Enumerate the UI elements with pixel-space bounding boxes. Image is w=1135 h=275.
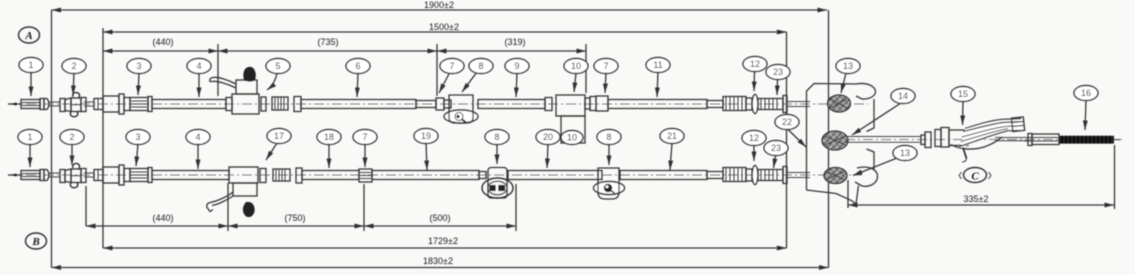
dimension 335±2 xyxy=(848,194,1114,205)
svg-text:18: 18 xyxy=(324,132,334,142)
label A xyxy=(19,27,40,43)
cable B step xyxy=(479,172,486,179)
extension x=516 xyxy=(515,184,517,231)
cable B conduit tube 4 (item 20) xyxy=(508,171,602,180)
svg-text:6: 6 xyxy=(355,61,360,71)
svg-text:8: 8 xyxy=(494,132,499,142)
cable A end barrel (item 1) xyxy=(21,100,40,109)
svg-text:(440): (440) xyxy=(152,213,173,223)
bracket bottom flap xyxy=(855,167,878,186)
leader 12B xyxy=(753,146,755,162)
svg-text:16: 16 xyxy=(1081,88,1091,98)
balloon 8B second xyxy=(597,130,621,145)
front cable sleeve cylinder xyxy=(1028,134,1059,146)
balloon 4B xyxy=(186,130,210,145)
svg-text:7: 7 xyxy=(362,132,367,142)
leader 8A xyxy=(462,72,477,92)
svg-text:10: 10 xyxy=(571,61,581,71)
dimension 1729±2 xyxy=(103,236,787,248)
balloon 18B xyxy=(317,130,341,145)
extension x=1114.5 xyxy=(1114,145,1116,209)
bracket bottom edge xyxy=(807,186,859,205)
bracket plate top edge xyxy=(807,84,857,92)
cable B centerline xyxy=(8,174,862,176)
svg-text:(500): (500) xyxy=(429,213,450,223)
leader 1A xyxy=(30,73,32,97)
front cable flanges xyxy=(935,128,949,148)
dimension 1900±2 xyxy=(52,0,828,10)
balloon 2B xyxy=(60,130,84,145)
svg-text:1729±2: 1729±2 xyxy=(428,236,458,246)
leader 16 xyxy=(1085,100,1086,130)
balloon 10B xyxy=(561,131,583,145)
balloon 8A xyxy=(469,59,493,74)
cable B conduit tube 2 xyxy=(302,171,359,180)
label C xyxy=(959,168,991,183)
balloon 2A xyxy=(62,59,86,74)
leader 6A xyxy=(357,73,358,97)
cable B clamp (item 8) with grommet xyxy=(482,168,513,199)
balloon 7A xyxy=(440,59,464,74)
cable B tip xyxy=(8,174,21,176)
balloon 13A xyxy=(836,59,860,74)
cable B threaded rod (item 23) xyxy=(758,170,783,181)
svg-text:4: 4 xyxy=(196,61,201,71)
cable B conduit tube (item 4) xyxy=(152,171,229,180)
cable A conduit cap (item 3 area) xyxy=(103,94,130,114)
cable B conduit cap (item 3 area) xyxy=(103,165,130,185)
cable B clamp 2 (item 8 second) xyxy=(594,168,625,199)
leader 19B xyxy=(426,143,427,170)
extension x=848 xyxy=(847,180,849,208)
cable A ring 3 xyxy=(545,98,552,111)
cable A washer xyxy=(752,95,758,114)
cable B stop (item 7) xyxy=(359,169,372,182)
cable A step tube xyxy=(416,101,436,108)
leader 8B second xyxy=(608,144,610,165)
cable A ring xyxy=(226,98,232,111)
balloon 20B xyxy=(536,130,560,145)
leader 5A xyxy=(267,73,277,90)
front cable threaded end (item 16, black) xyxy=(1059,136,1120,144)
extension x=218 xyxy=(217,44,219,96)
svg-text:12: 12 xyxy=(750,59,760,69)
svg-text:C: C xyxy=(971,171,979,183)
cable A tip xyxy=(8,103,21,105)
cable A centerline xyxy=(8,103,868,105)
cable B adjuster nut (item 12) xyxy=(723,168,746,182)
svg-text:8: 8 xyxy=(478,61,483,71)
extension x=586 xyxy=(585,44,587,93)
svg-text:1500±2: 1500±2 xyxy=(429,22,459,32)
leader 15 xyxy=(962,101,965,125)
balloon 23A xyxy=(766,65,790,80)
cable A threaded rod (item 23) xyxy=(758,99,783,110)
cable A adjuster nut (item 12) xyxy=(723,97,746,111)
svg-text:2: 2 xyxy=(69,132,74,142)
cable B washer xyxy=(752,166,758,185)
cable B step tube 2 xyxy=(707,172,723,179)
cable A spacer xyxy=(444,100,451,108)
cable A ferrule xyxy=(94,99,103,110)
balloon 9A xyxy=(505,59,529,74)
svg-text:1900±2: 1900±2 xyxy=(424,0,454,10)
balloon 5A xyxy=(266,59,290,74)
leader 22 xyxy=(788,130,806,148)
cable A sleeve flange xyxy=(148,97,152,112)
cable A clevis (item 2) xyxy=(60,92,86,116)
cable B ferrule xyxy=(94,170,103,181)
cable B conduit tube 5 (item 21) xyxy=(620,171,707,180)
cable B damper sleeve (item 3) xyxy=(130,169,148,182)
svg-text:7: 7 xyxy=(603,61,608,71)
dimension (440) bottom xyxy=(86,213,228,226)
leader 13B xyxy=(853,158,897,176)
leader 7A second xyxy=(605,73,606,93)
balloon 17B xyxy=(267,129,291,144)
dimension (319) xyxy=(437,37,586,51)
front cable washer stack xyxy=(921,132,931,148)
svg-text:B: B xyxy=(31,236,39,248)
cable A ring 4 xyxy=(585,97,596,111)
cable B conduit tube 3 (item 19) xyxy=(372,171,479,180)
cable B ring 2 xyxy=(260,169,266,183)
leader 3B xyxy=(136,144,138,166)
svg-text:1: 1 xyxy=(27,132,32,142)
cable A dome cap xyxy=(44,99,49,110)
cable B bracket (item 17) xyxy=(207,167,258,212)
extension x=86 xyxy=(85,186,87,226)
dimension 1830±2 xyxy=(52,256,829,268)
svg-text:(750): (750) xyxy=(284,213,305,223)
dimension 1500±2 xyxy=(103,22,787,32)
extension x=228 xyxy=(227,183,229,231)
leader 9A xyxy=(516,73,517,97)
cable B end barrel (item 1) xyxy=(21,171,40,180)
extension line left x=51.5 xyxy=(51,10,53,268)
balloon 7B xyxy=(353,130,377,145)
cable B coil sleeve (item 18 area) xyxy=(273,169,290,181)
front cable centerline xyxy=(845,139,1122,141)
svg-text:23: 23 xyxy=(771,143,781,153)
leader 20B xyxy=(547,144,548,168)
bracket right edge lower xyxy=(867,149,875,170)
balloon 23B xyxy=(764,141,788,156)
dimension (735) xyxy=(218,37,437,51)
grommet front (item 14) xyxy=(822,131,848,150)
svg-text:3: 3 xyxy=(135,132,140,142)
leader 3A xyxy=(138,73,139,95)
cable B dome cap xyxy=(44,170,49,181)
svg-text:14: 14 xyxy=(898,91,908,101)
cable A spring clip (black) xyxy=(243,67,255,82)
leader 7B xyxy=(364,144,366,167)
cable A conduit tube 4 (item 11) xyxy=(608,100,707,109)
leader 11A xyxy=(657,72,658,97)
svg-text:21: 21 xyxy=(667,131,677,141)
leader 21B xyxy=(670,143,672,170)
cable A conduit tube 3 (item 9) xyxy=(478,100,545,109)
svg-text:335±2: 335±2 xyxy=(964,194,989,204)
extension x=364 xyxy=(363,184,365,231)
svg-text:15: 15 xyxy=(958,89,968,99)
balloon 14 xyxy=(891,89,915,104)
boot hook end cap xyxy=(1011,117,1024,132)
leader 10A xyxy=(574,73,576,92)
svg-text:20: 20 xyxy=(543,132,553,142)
svg-text:12: 12 xyxy=(749,133,759,143)
leader 14 xyxy=(852,103,901,135)
cable A wire end xyxy=(787,102,810,107)
cable B spring clip (black) xyxy=(243,202,255,217)
leader 23A xyxy=(776,80,779,96)
extension line x=103 xyxy=(102,28,104,248)
cable B ring 5 xyxy=(746,169,752,181)
svg-text:4: 4 xyxy=(195,132,200,142)
svg-text:8: 8 xyxy=(606,132,611,142)
extension line right x=828.5 xyxy=(828,10,830,268)
balloon 16 xyxy=(1074,86,1098,101)
cable B inner rod xyxy=(49,173,60,177)
boot lower loop xyxy=(951,137,1002,149)
balloon 11A xyxy=(646,58,670,73)
balloon 21B xyxy=(660,129,684,144)
cable A mount bracket (item 10) xyxy=(556,95,585,143)
leader 4B xyxy=(197,144,199,169)
cable A rod 2 xyxy=(84,102,94,106)
cable A ring 2 xyxy=(261,97,266,111)
svg-text:(440): (440) xyxy=(152,37,173,47)
balloon 3B xyxy=(126,130,150,145)
boot tail spike xyxy=(963,148,967,159)
balloon 10A xyxy=(564,59,588,74)
svg-text:3: 3 xyxy=(136,61,141,71)
cable A stop (item 7) xyxy=(436,98,444,110)
cable A flange 2 xyxy=(294,97,301,112)
extension x=437 xyxy=(436,44,438,96)
cable B sleeve flange xyxy=(148,168,152,183)
balloon 7A second xyxy=(594,59,618,74)
svg-text:1830±2: 1830±2 xyxy=(423,256,453,266)
dimension (750) xyxy=(228,213,364,226)
cable A ring 5 xyxy=(746,98,752,110)
cable B rod 2 xyxy=(84,173,94,177)
svg-text:11: 11 xyxy=(653,60,662,70)
cable B clevis (item 2) xyxy=(60,163,86,187)
front cable wire 2 xyxy=(1024,138,1058,142)
cable A conduit tube 2 (item 6) xyxy=(301,100,416,109)
balloon 12B xyxy=(742,131,766,146)
cable B wire end xyxy=(787,173,810,178)
cable A damper sleeve (item 3) xyxy=(130,98,148,111)
dimension (500) xyxy=(364,213,516,226)
svg-text:2: 2 xyxy=(71,61,76,71)
svg-text:19: 19 xyxy=(421,131,431,141)
balloon 3A xyxy=(127,59,151,74)
cable A stop 2 (item 7 second) xyxy=(596,96,608,111)
leader 4A xyxy=(198,73,200,97)
balloon 15 xyxy=(951,87,975,102)
leader 2B xyxy=(71,144,73,165)
balloon 6A xyxy=(346,59,370,74)
cable A inner rod xyxy=(49,102,60,106)
svg-text:10: 10 xyxy=(567,133,577,143)
bracket top flap xyxy=(856,83,876,99)
bracket plate left edge xyxy=(806,91,808,190)
leader 8B xyxy=(496,144,498,164)
svg-text:(319): (319) xyxy=(504,37,525,47)
leader 17B xyxy=(266,143,277,160)
balloon 13B xyxy=(893,146,917,161)
front cable wire xyxy=(845,137,921,143)
balloon 12A xyxy=(743,57,767,72)
svg-text:13: 13 xyxy=(900,148,910,158)
svg-text:23: 23 xyxy=(773,67,783,77)
leader 7A xyxy=(439,72,450,93)
svg-text:7: 7 xyxy=(449,61,454,71)
front cable cylinder fitting (item 15 area) xyxy=(949,130,968,146)
cable B end bar xyxy=(783,167,787,184)
front cable wire behind hook xyxy=(995,138,1030,141)
label B xyxy=(26,233,47,249)
leader 12A xyxy=(753,72,756,92)
svg-text:5: 5 xyxy=(275,61,280,71)
cable A conduit tube (item 4) xyxy=(152,100,226,109)
leader 13A xyxy=(841,73,846,93)
svg-text:22: 22 xyxy=(782,117,792,127)
leader 23B xyxy=(774,156,776,169)
svg-text:(735): (735) xyxy=(317,37,338,47)
leader 1B xyxy=(29,144,31,167)
balloon 22 xyxy=(775,115,799,130)
dimension (440) top xyxy=(103,37,218,51)
bracket right edge upper xyxy=(867,99,875,132)
cable B barrel flange xyxy=(40,170,44,181)
svg-text:13: 13 xyxy=(843,61,853,71)
svg-text:17: 17 xyxy=(274,131,284,141)
front cable boot hook (item 15) xyxy=(951,117,1025,162)
cable A coil sleeve xyxy=(272,97,288,110)
grommet B (item 13 lower) xyxy=(824,168,847,184)
cable A barrel flange xyxy=(40,99,44,110)
cable A bracket (item 5 area) xyxy=(210,77,259,114)
cable B flange 2 xyxy=(296,168,302,183)
balloon 8B xyxy=(485,130,509,145)
cable A end bar xyxy=(783,96,787,113)
leader 18B xyxy=(328,144,330,168)
balloon 4A xyxy=(187,59,211,74)
extension line x=786.5 xyxy=(786,32,788,248)
balloon 1A xyxy=(19,58,43,73)
cable A step tube 2 xyxy=(707,101,723,108)
cable A clamp (item 8) with grommet xyxy=(444,95,478,123)
leader 2A xyxy=(73,73,74,95)
grommet A (item 13 upper) xyxy=(828,95,851,112)
svg-text:9: 9 xyxy=(514,61,519,71)
svg-text:A: A xyxy=(24,30,32,42)
balloon 19B xyxy=(414,129,438,144)
svg-text:1: 1 xyxy=(28,60,33,70)
balloon 1B xyxy=(18,130,42,145)
